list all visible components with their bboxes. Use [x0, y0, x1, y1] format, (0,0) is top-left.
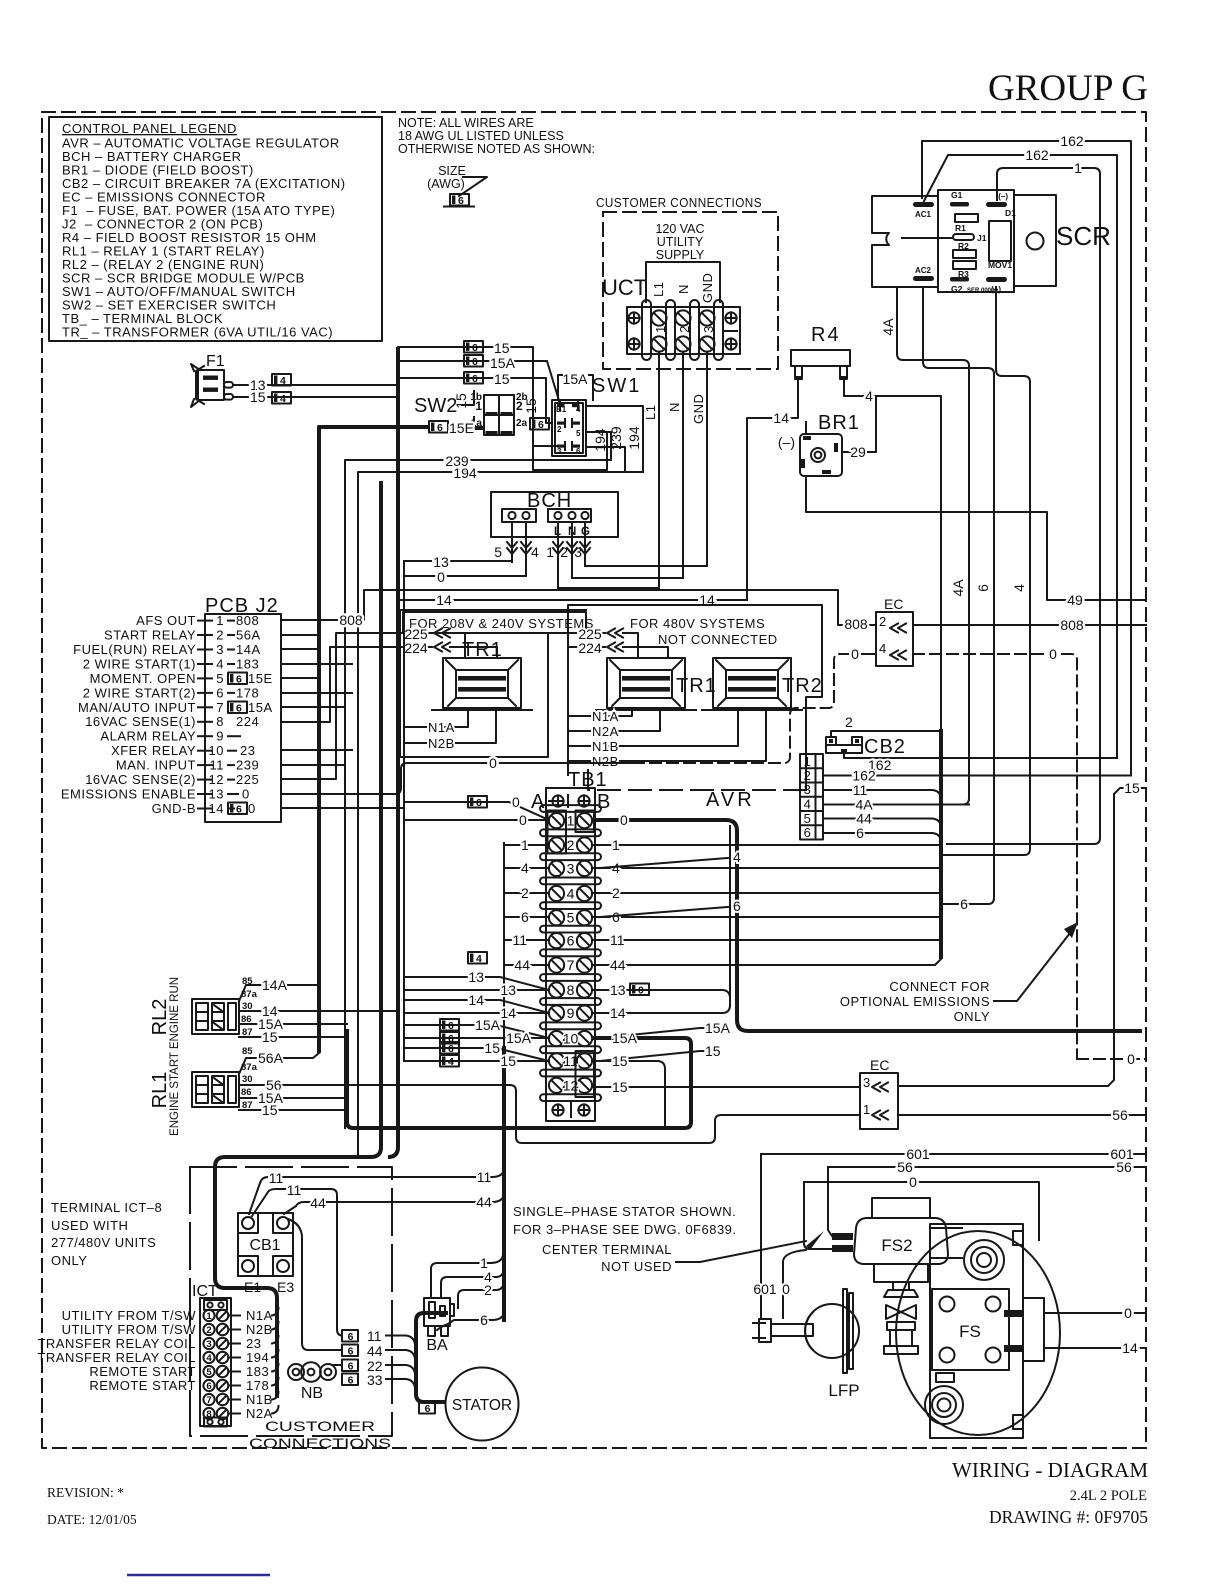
svg-text:11: 11 [610, 932, 625, 948]
varistor MOV1 [989, 221, 1011, 261]
breaker CB2 [826, 736, 906, 758]
svg-text:3: 3 [863, 1075, 871, 1090]
svg-text:808: 808 [339, 612, 363, 628]
svg-text:44: 44 [310, 1195, 326, 1211]
svg-text:14A: 14A [236, 642, 261, 657]
wire 808 right of EC [913, 624, 1146, 626]
svg-text:178: 178 [246, 1378, 269, 1393]
svg-text:CB1: CB1 [249, 1237, 280, 1254]
note CONNECT FOR OPTIONAL EMISSIONS ONLY [840, 922, 1078, 1024]
svg-text:2: 2 [557, 425, 562, 434]
svg-text:14: 14 [468, 992, 484, 1008]
svg-text:XFER RELAY: XFER RELAY [111, 743, 196, 758]
wire 224 (480 box) [568, 646, 605, 648]
wire 1 (SCR minus to right bus) [947, 168, 1100, 844]
svg-text:E1: E1 [244, 1279, 261, 1295]
wire L1 from UCT 1 [658, 352, 660, 588]
svg-text:15: 15 [250, 389, 266, 405]
pressure switch LFP [753, 1289, 860, 1400]
svg-text:14: 14 [1122, 1340, 1138, 1356]
wire 4 from R4 to bus [844, 380, 941, 731]
svg-text:16VAC SENSE(1): 16VAC SENSE(1) [85, 714, 196, 729]
wire 6 (A5) [504, 916, 549, 918]
label 15A bracket above SW1 [558, 371, 593, 400]
svg-text:15: 15 [494, 340, 510, 356]
svg-text:UCT: UCT [602, 275, 647, 300]
svg-text:1: 1 [475, 399, 482, 413]
svg-text:CUSTOMER: CUSTOMER [265, 1418, 375, 1434]
wire BCH L to L1 [558, 587, 659, 589]
svg-text:7: 7 [206, 1395, 211, 1406]
svg-text:3: 3 [567, 860, 575, 876]
wire 2 (B4) [592, 892, 941, 894]
fuel solenoid FS assembly [896, 1224, 1060, 1438]
svg-text:15E: 15E [449, 420, 474, 436]
svg-text:CONTROL PANEL LEGEND: CONTROL PANEL LEGEND [62, 121, 237, 136]
wire 56 (EC right to frame) [898, 1114, 1146, 1116]
wire 15 (EC right to frame) [898, 788, 1146, 1086]
svg-text:8: 8 [206, 1409, 211, 1420]
svg-text:N1A: N1A [246, 1308, 273, 1323]
svg-text:6: 6 [975, 584, 991, 592]
svg-text:N1A: N1A [592, 709, 619, 724]
svg-text:EMISSIONS ENABLE: EMISSIONS ENABLE [61, 787, 196, 802]
wire 11 (B6) [592, 939, 941, 941]
note text [398, 116, 595, 156]
wire 15 (B12 to EC) [592, 1086, 860, 1088]
svg-text:SINGLE–PHASE STATOR SHOWN.: SINGLE–PHASE STATOR SHOWN. [513, 1204, 736, 1219]
diode BR1 [778, 412, 860, 476]
svg-text:14A: 14A [262, 977, 288, 993]
svg-text:4: 4 [567, 886, 575, 902]
svg-text:15A: 15A [705, 1020, 731, 1036]
svg-text:2.4L 2 POLE: 2.4L 2 POLE [1070, 1488, 1147, 1504]
svg-text:15: 15 [484, 1040, 500, 1056]
svg-text:3: 3 [557, 447, 562, 456]
svg-text:2: 2 [804, 768, 812, 783]
stub 6-11 [342, 1328, 415, 1345]
customer connections (utility) dashed box [596, 195, 778, 369]
svg-text:44: 44 [367, 1343, 383, 1359]
svg-text:15: 15 [612, 1053, 628, 1069]
wire N2B (208 box) [411, 712, 496, 743]
svg-text:USED WITH: USED WITH [51, 1218, 128, 1233]
wire 601 vertical to LFP [760, 1154, 762, 1318]
svg-text:14: 14 [500, 1005, 516, 1021]
svg-text:5: 5 [804, 811, 812, 826]
svg-text:224: 224 [578, 640, 602, 656]
wire 239 from J2-11 [281, 764, 345, 766]
svg-text:GND-B: GND-B [152, 801, 196, 816]
svg-text:ONLY: ONLY [954, 1009, 990, 1024]
wire 15E from J2-5 [281, 677, 319, 679]
svg-text:2: 2 [612, 885, 620, 901]
svg-text:1: 1 [804, 754, 812, 769]
svg-text:(AWG): (AWG) [427, 177, 465, 191]
svg-text:15: 15 [705, 1043, 721, 1059]
ICT pin 8 wire N2A [203, 1408, 214, 1419]
svg-text:194: 194 [592, 428, 608, 452]
wire 14 from FS [1044, 1347, 1146, 1349]
BCH G wire [584, 522, 586, 566]
wire 15A (B10 thick loop) [347, 1029, 691, 1128]
svg-text:13: 13 [610, 982, 626, 998]
svg-text:5: 5 [567, 910, 575, 926]
svg-text:120 VAC: 120 VAC [655, 222, 704, 236]
main bus (thick) center-left [388, 347, 398, 1157]
svg-text:0: 0 [512, 794, 520, 810]
svg-text:2: 2 [879, 614, 887, 629]
svg-text:225: 225 [236, 772, 259, 787]
wire 4A (AC2 down) [897, 287, 969, 805]
svg-text:(–): (–) [778, 434, 795, 450]
wire 0 horizontal [804, 1182, 1039, 1240]
svg-text:2 WIRE START(2): 2 WIRE START(2) [83, 685, 196, 700]
svg-text:4: 4 [521, 860, 529, 876]
svg-text:CENTER TERMINAL: CENTER TERMINAL [542, 1242, 672, 1257]
svg-text:TR2: TR2 [782, 675, 823, 697]
svg-text:MAN/AUTO INPUT: MAN/AUTO INPUT [78, 700, 196, 715]
connector EC (lower) [860, 1057, 898, 1129]
svg-text:239: 239 [236, 758, 259, 773]
svg-text:0: 0 [437, 569, 445, 585]
transformer TR1 (208 box) [432, 639, 532, 710]
svg-text:44: 44 [610, 957, 626, 973]
svg-text:6: 6 [856, 825, 864, 841]
wire 15 (B11 diag) [600, 1051, 720, 1061]
UCT terminal label box L1 N GND [646, 262, 720, 303]
svg-text:MAN. INPUT: MAN. INPUT [116, 758, 196, 773]
wire size legend symbol [427, 164, 487, 207]
SCR bridge module U-SCR [872, 190, 1056, 294]
svg-text:808: 808 [844, 616, 868, 632]
svg-text:6: 6 [612, 909, 620, 925]
svg-text:5: 5 [216, 671, 224, 686]
svg-text:AC1: AC1 [915, 210, 932, 219]
svg-text:23: 23 [246, 1336, 261, 1351]
svg-text:SW1: SW1 [592, 375, 641, 397]
pad G1 [950, 202, 969, 207]
svg-text:56: 56 [1112, 1107, 1128, 1123]
wire 49 from BR1 to frame [806, 476, 1146, 600]
wire 15 from F1 [233, 396, 399, 398]
svg-text:3: 3 [574, 544, 582, 560]
wire 162 (AC1 to right bus) [922, 141, 1131, 776]
decorative blue rule [127, 1574, 270, 1577]
BCH L wire [557, 522, 559, 588]
wire 162 (AC1 diagonal to right bus) [924, 155, 1117, 758]
note TERMINAL ICT-8 [51, 1200, 162, 1268]
svg-text:N1B: N1B [246, 1392, 273, 1407]
svg-text:2: 2 [484, 1282, 492, 1298]
wire 0 from J2-14 [281, 807, 404, 809]
svg-text:6: 6 [521, 909, 529, 925]
svg-text:85: 85 [242, 1046, 253, 1057]
svg-text:2: 2 [567, 837, 575, 853]
svg-text:TR1: TR1 [676, 675, 717, 697]
svg-text:NB: NB [301, 1385, 323, 1402]
wire 44 (A7) [504, 964, 549, 966]
svg-text:15: 15 [500, 1053, 516, 1069]
box FOR 480V SYSTEMS [568, 605, 822, 790]
wire 0 (A1) [404, 819, 549, 821]
svg-text:UTILITY FROM T/SW: UTILITY FROM T/SW [62, 1308, 197, 1323]
STATOR [446, 1368, 519, 1441]
fuse F1 [191, 353, 233, 407]
BCH pin4 wire [525, 522, 527, 576]
wire N1A (480) [575, 712, 632, 716]
svg-text:162: 162 [1025, 147, 1049, 163]
svg-text:AVR: AVR [706, 789, 755, 811]
breaker CB1 [238, 1213, 294, 1295]
svg-text:2: 2 [677, 325, 692, 333]
svg-text:5: 5 [494, 544, 502, 560]
wire 4 (B3) [592, 867, 941, 869]
svg-text:11: 11 [269, 1170, 284, 1186]
wire 56A from J2-2 [281, 634, 320, 636]
svg-text:6: 6 [567, 933, 575, 949]
svg-text:N: N [676, 284, 691, 294]
solenoid FS2 [832, 1198, 962, 1282]
svg-text:2: 2 [206, 1325, 211, 1336]
svg-text:87a: 87a [241, 1062, 258, 1073]
svg-text:G2: G2 [951, 284, 963, 294]
wire N1B (480) [575, 712, 738, 746]
wire N1A (208 box) [411, 712, 468, 727]
svg-text:13: 13 [468, 969, 484, 985]
pad AC2 [913, 276, 934, 281]
svg-text:0: 0 [909, 1174, 917, 1190]
svg-text:WIRING - DIAGRAM: WIRING - DIAGRAM [952, 1458, 1148, 1482]
svg-text:0: 0 [242, 787, 250, 802]
svg-text:FUEL(RUN) RELAY: FUEL(RUN) RELAY [73, 642, 196, 657]
wire 11 from AVR-3 [823, 790, 941, 800]
switch SW1 [552, 375, 641, 456]
svg-text:N1A: N1A [428, 720, 455, 735]
svg-text:194: 194 [626, 426, 642, 450]
svg-text:7: 7 [216, 700, 224, 715]
bottom thick run to ICT [215, 481, 381, 1398]
svg-text:44: 44 [476, 1194, 492, 1210]
svg-text:9: 9 [567, 1005, 575, 1021]
svg-text:R1: R1 [955, 223, 966, 233]
svg-text:0: 0 [1127, 1051, 1135, 1067]
wire GND from UCT 3 [706, 352, 708, 566]
svg-text:4: 4 [216, 656, 224, 671]
svg-text:4: 4 [1011, 584, 1027, 592]
svg-text:N2A: N2A [592, 724, 619, 739]
svg-text:SW2: SW2 [414, 395, 457, 417]
svg-text:RL1: RL1 [149, 1072, 171, 1109]
svg-text:N2A: N2A [246, 1406, 273, 1421]
BCH N wire [571, 522, 573, 578]
svg-text:56: 56 [897, 1159, 913, 1175]
terminal ICT [192, 1283, 231, 1427]
relay RL1 [149, 1052, 239, 1136]
wire 808 from J2-1 [281, 590, 876, 625]
svg-text:15: 15 [1124, 780, 1140, 796]
wire 2 (stator to bus) [458, 1282, 504, 1308]
wire 14 (A9 diag) [404, 1000, 549, 1013]
transformer TR2 (480 box) [702, 658, 823, 710]
svg-text:14: 14 [773, 410, 789, 426]
pad AC1 [913, 202, 934, 207]
stub 6-33 [342, 1372, 415, 1388]
svg-text:6: 6 [206, 1381, 211, 1392]
svg-text:44: 44 [514, 957, 530, 973]
svg-text:NOT USED: NOT USED [601, 1259, 672, 1274]
svg-text:87a: 87a [241, 989, 258, 1000]
svg-text:15: 15 [612, 1079, 628, 1095]
wire 15 upper to SW1 [398, 347, 560, 446]
svg-text:15: 15 [262, 1102, 278, 1118]
svg-text:7: 7 [567, 957, 575, 973]
svg-text:5: 5 [576, 429, 581, 438]
svg-text:N2B: N2B [428, 736, 455, 751]
svg-text:L1: L1 [643, 405, 658, 420]
svg-text:FS: FS [959, 1322, 981, 1341]
wire 13 (A8 diag) [404, 977, 549, 990]
BCH pin5 wire with arrows [511, 522, 513, 562]
svg-text:B1: B1 [556, 405, 567, 414]
svg-text:EC: EC [870, 1057, 889, 1073]
svg-text:15: 15 [453, 393, 469, 409]
svg-text:4: 4 [531, 544, 539, 560]
svg-text:1: 1 [206, 1311, 212, 1322]
svg-text:START RELAY: START RELAY [104, 628, 196, 643]
svg-text:13: 13 [500, 982, 516, 998]
bundle bus for A rows [503, 843, 505, 1048]
svg-text:CONNECTIONS: CONNECTIONS [249, 1435, 391, 1451]
svg-text:1: 1 [567, 813, 575, 829]
wire 0 (dashed to frame) [1077, 1058, 1146, 1060]
svg-text:L1: L1 [651, 282, 666, 297]
svg-text:2: 2 [216, 628, 224, 643]
svg-text:E3: E3 [277, 1279, 294, 1295]
switch SW2 [414, 391, 528, 435]
transformer TR1 (480 box) [596, 658, 717, 710]
svg-text:6: 6 [960, 896, 968, 912]
svg-text:DRAWING #: 0F9705: DRAWING #: 0F9705 [989, 1507, 1148, 1527]
svg-text:1: 1 [653, 325, 668, 333]
svg-text:SIZE: SIZE [438, 164, 466, 178]
svg-text:4: 4 [804, 797, 812, 812]
svg-text:BR1: BR1 [818, 412, 860, 434]
svg-text:A: A [531, 791, 545, 813]
box FOR 208V 240V SYSTEMS [400, 610, 594, 757]
svg-text:CB2: CB2 [864, 736, 906, 758]
wire routing below SW1 [533, 434, 607, 470]
wire 15A (A10) [404, 1037, 549, 1039]
svg-text:N2B: N2B [246, 1322, 273, 1337]
svg-text:TRANSFER RELAY COIL: TRANSFER RELAY COIL [37, 1336, 196, 1351]
pad G2 [950, 277, 969, 282]
svg-text:3: 3 [206, 1339, 211, 1350]
wire 1 (A2) [504, 844, 549, 846]
svg-text:14: 14 [610, 1005, 626, 1021]
wire 2 from CB2 [831, 731, 941, 737]
svg-text:56A: 56A [258, 1050, 284, 1066]
svg-text:CONNECT FOR: CONNECT FOR [889, 979, 990, 994]
svg-text:REVISION: *: REVISION: * [47, 1485, 124, 1500]
wire 0 from J2-13 to EC4 (dashed optional) [281, 763, 633, 794]
svg-text:808: 808 [236, 613, 259, 628]
svg-text:4: 4 [865, 388, 873, 404]
svg-text:0: 0 [519, 812, 527, 828]
svg-text:FS2: FS2 [881, 1236, 912, 1255]
svg-text:NOTE: ALL WIRES ARE: NOTE: ALL WIRES ARE [398, 116, 534, 130]
connector EC (upper) [876, 596, 913, 666]
svg-text:224: 224 [404, 640, 428, 656]
svg-text:2a: 2a [516, 418, 528, 429]
wire 44 (B7) [592, 959, 941, 965]
stator size box [419, 1402, 435, 1415]
wire 0 branch to LFP [783, 1250, 806, 1318]
svg-text:14: 14 [436, 592, 452, 608]
svg-text:ONLY: ONLY [51, 1253, 87, 1268]
wire 15A (B10 diag) [600, 1028, 720, 1038]
wire 14 long horizontal [399, 599, 747, 601]
svg-text:(–): (–) [998, 192, 1008, 201]
svg-text:15A: 15A [506, 1030, 532, 1046]
svg-text:56: 56 [1116, 1159, 1132, 1175]
svg-text:GND: GND [691, 394, 706, 424]
wire 15 (A11 diag) [404, 1048, 549, 1061]
svg-text:B: B [597, 791, 610, 813]
svg-text:0: 0 [620, 812, 628, 828]
UCT terminal block [627, 300, 740, 360]
svg-text:1: 1 [521, 837, 529, 853]
svg-text:6: 6 [480, 1312, 488, 1328]
svg-text:REMOTE START: REMOTE START [89, 1364, 196, 1379]
wire 225 arrows (208 box) [398, 632, 432, 634]
svg-text:NOT CONNECTED: NOT CONNECTED [658, 632, 778, 647]
svg-text:16VAC SENSE(2): 16VAC SENSE(2) [85, 772, 196, 787]
svg-text:ENGINE START: ENGINE START [169, 1052, 181, 1136]
wire 29 from BR1 [842, 398, 876, 452]
svg-text:5: 5 [206, 1367, 212, 1378]
wire 194b from SW1 pin6 [586, 447, 625, 472]
svg-text:178: 178 [236, 685, 259, 700]
wire 1 (BA to bus) [431, 1255, 503, 1298]
wire 14A from J2-3 [281, 648, 320, 650]
svg-text:18 AWG UL LISTED UNLESS: 18 AWG UL LISTED UNLESS [398, 129, 564, 143]
wire 4 (A3) [504, 867, 549, 869]
svg-text:RL2: RL2 [149, 999, 171, 1036]
svg-text:2: 2 [516, 399, 523, 413]
svg-text:ENGINE RUN: ENGINE RUN [169, 977, 181, 1049]
svg-text:1: 1 [612, 837, 620, 853]
svg-text:TRANSFER RELAY COIL: TRANSFER RELAY COIL [37, 1350, 196, 1365]
svg-text:11: 11 [477, 1169, 492, 1185]
wire 11 (A6) [504, 939, 549, 941]
svg-text:BA: BA [426, 1337, 448, 1354]
svg-text:4A: 4A [950, 579, 966, 597]
wire 4 (plus pad down) [943, 287, 1030, 855]
svg-text:15A: 15A [490, 355, 516, 371]
svg-text:UTILITY: UTILITY [657, 235, 704, 249]
wire 0 vertical to FS2 stub [804, 1182, 832, 1249]
wire 224 arrows (208 box) [398, 646, 432, 648]
svg-text:15: 15 [494, 371, 510, 387]
svg-text:UTILITY FROM T/SW: UTILITY FROM T/SW [62, 1322, 197, 1337]
svg-text:CUSTOMER CONNECTIONS: CUSTOMER CONNECTIONS [596, 195, 762, 210]
wire 13 from F1 [233, 384, 396, 386]
wire 11 (CB1 to bus) [249, 1169, 504, 1214]
svg-text:183: 183 [246, 1364, 269, 1379]
wire 15A (A10 diag) [404, 1025, 549, 1038]
svg-text:AFS OUT: AFS OUT [136, 613, 196, 628]
